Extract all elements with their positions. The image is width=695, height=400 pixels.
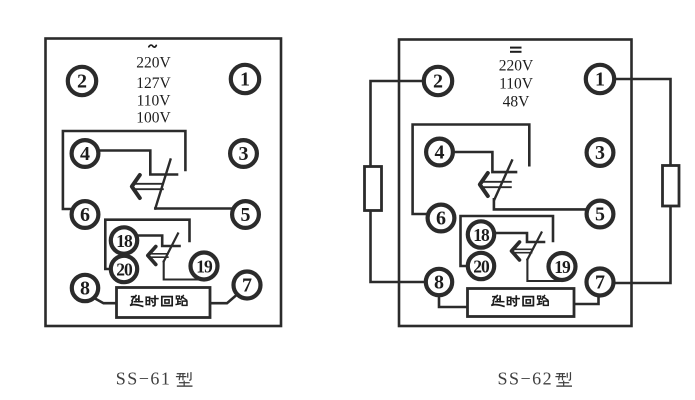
svg-text:6: 6 xyxy=(80,204,90,226)
svg-text:110V: 110V xyxy=(499,76,534,93)
svg-text:220V: 220V xyxy=(499,58,534,75)
svg-text:100V: 100V xyxy=(136,110,171,127)
svg-text:8: 8 xyxy=(80,278,90,300)
svg-text:2: 2 xyxy=(433,71,443,93)
svg-text:48V: 48V xyxy=(503,94,531,111)
svg-text:7: 7 xyxy=(595,272,605,294)
svg-text:127V: 127V xyxy=(136,75,171,92)
svg-text:18: 18 xyxy=(116,231,133,251)
svg-text:220V: 220V xyxy=(136,55,171,72)
svg-text:1: 1 xyxy=(595,69,605,91)
svg-text:1: 1 xyxy=(240,69,250,91)
svg-text:2: 2 xyxy=(77,71,87,93)
svg-text:SS−62: SS−62 xyxy=(497,369,553,389)
svg-text:5: 5 xyxy=(595,204,605,226)
svg-text:SS−61: SS−61 xyxy=(116,369,172,389)
svg-text:18: 18 xyxy=(473,225,490,245)
svg-text:4: 4 xyxy=(435,142,445,164)
svg-text:20: 20 xyxy=(116,260,133,280)
svg-text:8: 8 xyxy=(434,272,444,294)
svg-text:5: 5 xyxy=(241,204,251,226)
svg-text:4: 4 xyxy=(80,143,90,165)
svg-text:3: 3 xyxy=(239,143,249,165)
svg-text:3: 3 xyxy=(595,142,605,164)
svg-text:20: 20 xyxy=(473,257,490,277)
svg-text:19: 19 xyxy=(196,257,213,277)
svg-text:110V: 110V xyxy=(137,93,172,110)
svg-text:19: 19 xyxy=(554,257,571,277)
svg-text:7: 7 xyxy=(242,275,252,297)
svg-text:6: 6 xyxy=(436,208,446,230)
